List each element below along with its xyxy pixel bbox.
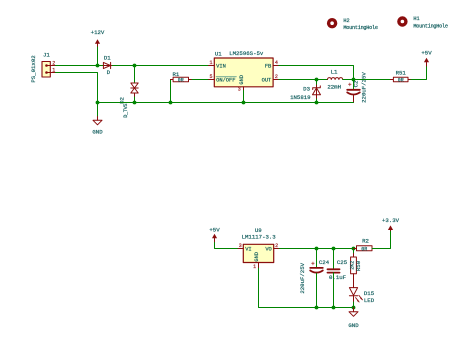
node junction C25 top	[332, 247, 336, 251]
node junction D2 top	[133, 64, 137, 68]
svg-text:GND: GND	[254, 252, 260, 262]
svg-text:R51: R51	[396, 70, 407, 77]
connector J1	[30, 51, 56, 82]
svg-text:ON/OFF: ON/OFF	[216, 77, 235, 83]
node junction D3 bottom	[315, 101, 319, 105]
svg-text:0.1uF: 0.1uF	[329, 274, 347, 281]
svg-text:GND: GND	[92, 129, 103, 136]
svg-text:LM2596S-5v: LM2596S-5v	[229, 50, 264, 57]
node junction C2	[352, 78, 356, 82]
wire U9 GND down and bottom rail	[259, 268, 354, 307]
svg-text:3: 3	[239, 243, 242, 249]
node junction R50 top	[352, 247, 356, 251]
wire VO row	[279, 248, 356, 250]
diode D2 TVS	[118, 66, 138, 118]
svg-text:22mH: 22mH	[327, 84, 341, 91]
svg-text:D: D	[107, 69, 111, 76]
svg-text:2: 2	[52, 60, 55, 66]
svg-text:3: 3	[238, 86, 241, 92]
capacitor C2	[347, 72, 368, 103]
wire L1 to C2 node	[343, 79, 354, 81]
node junction U1 GND	[242, 101, 246, 105]
svg-text:H1: H1	[413, 16, 419, 22]
power +12V	[91, 29, 105, 47]
svg-text:VO: VO	[265, 247, 271, 253]
mounting hole H1	[397, 16, 448, 29]
svg-text:FB: FB	[265, 63, 272, 69]
svg-text:OUT: OUT	[262, 77, 272, 83]
node junction LED bottom	[352, 306, 356, 310]
svg-text:LED: LED	[364, 297, 375, 304]
svg-text:U1: U1	[215, 51, 222, 58]
svg-text:J1: J1	[43, 51, 50, 58]
inductor L1	[327, 68, 342, 90]
resistor R1	[171, 71, 209, 103]
op-amp U9 regulator LM1117	[238, 227, 279, 270]
svg-text:1N5819: 1N5819	[290, 94, 311, 101]
LED D15	[349, 279, 374, 308]
svg-text:4: 4	[275, 60, 278, 66]
svg-text:220uF/25V: 220uF/25V	[299, 262, 306, 293]
svg-text:L1: L1	[331, 68, 338, 75]
svg-text:C25: C25	[337, 259, 348, 266]
svg-text:MountingHole: MountingHole	[343, 25, 377, 31]
svg-text:+5V: +5V	[209, 227, 220, 234]
svg-text:+: +	[311, 261, 315, 268]
resistor R2	[354, 238, 373, 253]
wire GND rail	[98, 102, 354, 104]
wire FB to C2 node	[279, 66, 354, 80]
node junction C24 top	[315, 247, 319, 251]
capacitor C25	[328, 249, 348, 308]
svg-text:0R: 0R	[178, 78, 184, 84]
wire C2 node to R51	[354, 79, 391, 81]
node junction C25 bottom	[332, 306, 336, 310]
node junction at +12V rail	[96, 64, 100, 68]
wire +12V to rail	[97, 47, 99, 66]
svg-text:C2: C2	[353, 80, 360, 87]
resistor R51	[390, 70, 411, 84]
svg-text:MountingHole: MountingHole	[413, 23, 447, 29]
mounting hole H2	[327, 18, 378, 31]
svg-text:D1: D1	[104, 55, 111, 62]
power +3.3V	[382, 217, 400, 231]
svg-text:GND: GND	[348, 322, 359, 329]
svg-text:+5V: +5V	[421, 50, 432, 57]
svg-text:C24: C24	[319, 259, 330, 266]
wire R2 to +3.3V	[372, 231, 391, 249]
node junction GND rail left	[96, 101, 100, 105]
wire R51 to +5V	[411, 66, 427, 80]
wire D1 to U1 VIN	[112, 65, 208, 67]
svg-text:GND: GND	[239, 75, 245, 85]
power +5V bottom left	[209, 227, 220, 243]
svg-text:D_TVS: D_TVS	[123, 104, 129, 118]
svg-text:LM1117-3.3: LM1117-3.3	[242, 234, 277, 241]
capacitor C24	[299, 249, 330, 308]
svg-text:1: 1	[52, 67, 55, 73]
svg-text:0R: 0R	[398, 78, 404, 84]
svg-text:0R: 0R	[361, 247, 367, 253]
svg-text:+12V: +12V	[91, 29, 105, 36]
svg-text:2: 2	[275, 74, 278, 80]
wire U1 GND to rail	[243, 91, 245, 103]
ground bottom circuit	[348, 308, 359, 330]
svg-text:220uF/25V: 220uF/25V	[361, 72, 368, 103]
diode D1	[103, 55, 112, 77]
resistor R50	[350, 249, 363, 280]
node junction D3 top	[315, 78, 319, 82]
wire J1 pin1 down to GND rail	[56, 73, 98, 103]
power +5V right	[421, 50, 432, 66]
op-amp U1 regulator LM2596S	[209, 50, 279, 92]
svg-text:1: 1	[253, 264, 256, 270]
svg-text:R1: R1	[172, 71, 179, 78]
svg-text:5: 5	[209, 74, 212, 80]
node junction R1 bottom	[169, 101, 173, 105]
svg-text:R50: R50	[355, 260, 362, 271]
svg-text:VI: VI	[245, 247, 251, 253]
svg-text:R2: R2	[362, 238, 369, 245]
svg-text:2: 2	[275, 243, 278, 249]
svg-text:+3.3V: +3.3V	[382, 217, 400, 224]
ground top circuit	[92, 103, 103, 136]
svg-text:VIN: VIN	[216, 63, 226, 69]
node junction C24 bottom	[315, 306, 319, 310]
svg-text:+: +	[348, 82, 352, 89]
wire +5V to U9 VI	[215, 243, 239, 249]
svg-text:H2: H2	[343, 18, 349, 24]
diode D3 1N5819	[290, 80, 320, 103]
wire J1 pin2 to D1	[56, 65, 104, 67]
svg-text:D3: D3	[303, 86, 310, 93]
wire OUT to L1	[279, 79, 328, 81]
node junction D2 bottom	[133, 101, 137, 105]
svg-text:PS_01x02: PS_01x02	[30, 55, 37, 83]
svg-text:1: 1	[209, 60, 212, 66]
